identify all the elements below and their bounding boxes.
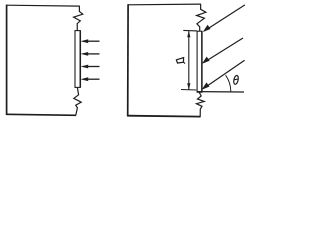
left plate left edge [6, 5, 8, 115]
left loaded edge strip [75, 31, 80, 88]
load arrow 3 shaft [87, 66, 100, 68]
right loaded edge strip [197, 31, 202, 92]
oblique force arrow 2 shaft [204, 38, 243, 63]
dimension a bottom extension line [181, 89, 196, 92]
load arrow 4 head [81, 77, 89, 81]
right plate bottom edge [127, 115, 201, 118]
left plate bottom edge [6, 114, 76, 115]
load arrow 1 shaft [87, 40, 100, 42]
load arrow 2 head [81, 52, 89, 56]
load arrow 1 head [81, 39, 89, 43]
oblique arrow 3 head [202, 82, 210, 89]
dimension a top extension line [183, 29, 197, 32]
right plate top break line [197, 4, 206, 31]
dimension a top arrowhead [187, 31, 190, 37]
left plate top break line [74, 6, 83, 31]
oblique arrow 2 head [202, 57, 210, 64]
oblique force arrow 1 shaft [205, 5, 245, 31]
load arrow 3 head [81, 65, 89, 69]
theta reference horizontal line [198, 91, 245, 93]
dimension a line [188, 31, 190, 89]
left plate top edge [6, 4, 80, 7]
right strip right edge thick [201, 31, 203, 92]
label theta [233, 75, 239, 85]
left plate bottom break line [74, 88, 81, 115]
dimension a bottom arrowhead [187, 83, 190, 89]
oblique force arrow 3 shaft (theta line) [204, 60, 245, 88]
right plate top edge [128, 3, 201, 6]
right plate bottom break line [196, 92, 204, 116]
label a (rotated letter a) [176, 58, 185, 64]
load arrow 4 shaft [87, 78, 100, 80]
angle arc [226, 75, 231, 92]
oblique arrow 1 head [203, 25, 211, 32]
right plate left edge [127, 4, 129, 116]
load arrow 2 shaft [87, 53, 100, 55]
left strip right edge thick [79, 31, 81, 88]
